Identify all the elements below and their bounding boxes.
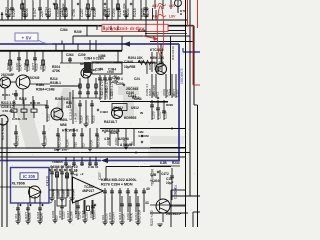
- svg-text:R212: R212: [132, 96, 140, 100]
- svg-text:R214: R214: [51, 188, 55, 196]
- svg-text:4MP217: 4MP217: [82, 189, 94, 193]
- svg-text:C2B: C2B: [150, 173, 157, 177]
- svg-text:C217: C217: [66, 210, 70, 218]
- svg-text:R256: R256: [15, 135, 19, 143]
- svg-text:C4B3: C4B3: [100, 110, 108, 114]
- svg-text:C209: C209: [151, 111, 155, 119]
- svg-text:013: 013: [66, 105, 72, 109]
- svg-text:4.7K0M: 4.7K0M: [138, 134, 149, 138]
- svg-text:+: +: [50, 201, 52, 205]
- svg-text:R233: R233: [66, 188, 70, 196]
- svg-text:C206: C206: [85, 115, 89, 123]
- svg-text:C4B 04: C4B 04: [88, 165, 99, 169]
- svg-text:+ 5V: + 5V: [22, 36, 33, 42]
- svg-text:C217: C217: [46, 113, 50, 121]
- svg-text:H2B4 R22B: H2B4 R22B: [102, 129, 120, 133]
- svg-text:4C: 4C: [145, 201, 150, 205]
- svg-text:0.047: 0.047: [33, 8, 37, 17]
- svg-text:KTC2320: KTC2320: [150, 48, 164, 52]
- svg-text:R34B-1: R34B-1: [50, 81, 61, 85]
- svg-text:0.047: 0.047: [103, 7, 107, 15]
- svg-text:22K: 22K: [40, 10, 44, 17]
- svg-text:C2640: C2640: [124, 60, 134, 64]
- svg-text:R276 C284 + MDN: R276 C284 + MDN: [101, 183, 133, 187]
- svg-text:R47K R233: R47K R233: [1, 123, 5, 140]
- svg-text:472: 472: [14, 214, 18, 219]
- svg-text:R4218-T: R4218-T: [104, 120, 118, 124]
- svg-text:R277: R277: [40, 212, 44, 220]
- svg-text:470K: 470K: [89, 139, 93, 147]
- svg-text:R218: R218: [133, 8, 137, 17]
- svg-text:+8: +8: [74, 173, 78, 177]
- svg-text:472: 472: [39, 65, 43, 70]
- svg-text:R60L: R60L: [60, 118, 68, 122]
- svg-text:C240: C240: [126, 212, 130, 220]
- svg-text:KD9505: KD9505: [124, 116, 137, 120]
- svg-text:2SC945: 2SC945: [28, 76, 40, 80]
- svg-text:C206: C206: [89, 210, 93, 218]
- svg-text:0.047: 0.047: [21, 7, 25, 15]
- svg-text:R216: R216: [91, 115, 95, 123]
- svg-text:C4316: C4316: [46, 176, 50, 186]
- svg-text:IC 205: IC 205: [23, 174, 36, 179]
- svg-text:156OM975: 156OM975: [180, 68, 184, 84]
- svg-text:10μF6B: 10μF6B: [124, 65, 136, 69]
- svg-text:C287: C287: [80, 8, 84, 17]
- svg-text:R223: R223: [6, 62, 10, 70]
- svg-text:C240: C240: [114, 137, 118, 145]
- svg-text:R214: R214: [79, 115, 83, 123]
- svg-text:MD-004: MD-004: [96, 136, 100, 147]
- svg-text:R2O4: R2O4: [2, 93, 10, 97]
- svg-text:R47K: R47K: [58, 210, 62, 218]
- svg-text:C206: C206: [23, 62, 27, 70]
- svg-text:R294: R294: [36, 211, 40, 219]
- svg-text:C4T2: C4T2: [161, 172, 169, 176]
- svg-text:KB84 MD-022 A200L: KB84 MD-022 A200L: [101, 178, 138, 182]
- svg-text:NB8: NB8: [60, 123, 67, 127]
- svg-text:C13 0.4: C13 0.4: [174, 188, 178, 199]
- svg-text:U912: U912: [131, 106, 139, 110]
- svg-text:0.047: 0.047: [18, 212, 22, 220]
- svg-text:C217: C217: [74, 210, 78, 218]
- svg-text:C206: C206: [25, 8, 29, 17]
- svg-text:10: 10: [130, 141, 134, 145]
- svg-text:C264: C264: [60, 28, 68, 32]
- svg-text:016: 016: [101, 215, 105, 220]
- svg-text:C220: C220: [163, 111, 167, 119]
- svg-text:R34 R219: R34 R219: [171, 46, 175, 60]
- svg-text:0.047: 0.047: [106, 137, 110, 145]
- svg-text:L-4 10: L-4 10: [74, 113, 78, 122]
- svg-text:R277: R277: [56, 188, 60, 196]
- svg-text:C287: C287: [61, 188, 65, 196]
- svg-text:1706: 1706: [107, 70, 114, 74]
- svg-text:R223 +470: R223 +470: [150, 210, 154, 226]
- svg-text:10μF: 10μF: [166, 181, 173, 185]
- svg-text:R296: R296: [138, 29, 146, 33]
- svg-text:R47K: R47K: [108, 212, 112, 220]
- svg-text:C284: C284: [43, 135, 47, 143]
- svg-text:10: 10: [74, 168, 78, 172]
- svg-text:470K: 470K: [52, 69, 61, 73]
- svg-text:R294: R294: [4, 7, 8, 15]
- svg-text:C209: C209: [71, 188, 75, 196]
- svg-text:470K: 470K: [72, 8, 76, 17]
- svg-text:10: 10: [81, 143, 85, 147]
- svg-text:+: +: [100, 67, 102, 71]
- svg-text:R294: R294: [44, 7, 48, 15]
- svg-text:+2: +2: [80, 172, 84, 176]
- svg-text:C24: C24: [134, 77, 140, 81]
- svg-text:HTCWIB-0: HTCWIB-0: [62, 129, 78, 133]
- svg-text:R219 470: R219 470: [105, 79, 109, 93]
- svg-text:B1912: B1912: [114, 106, 124, 110]
- svg-text:R294 22K: R294 22K: [150, 61, 165, 65]
- svg-text:MD-004: MD-004: [57, 136, 61, 147]
- svg-text:C210: C210: [157, 111, 161, 119]
- svg-text:IN: IN: [140, 111, 143, 115]
- svg-text:R2B4+C24B: R2B4+C24B: [36, 88, 55, 92]
- svg-text:C210: C210: [134, 212, 138, 220]
- svg-text:R34 1K: R34 1K: [30, 101, 41, 105]
- svg-text:R234: R234: [172, 161, 180, 165]
- svg-text:R2K: R2K: [138, 60, 145, 64]
- svg-text:R239: R239: [74, 30, 82, 34]
- svg-text:R47K: R47K: [146, 7, 150, 17]
- svg-text:C240 1706: C240 1706: [100, 79, 104, 95]
- svg-text:R294: R294: [65, 139, 69, 147]
- svg-text:C209 4.7: C209 4.7: [145, 83, 149, 96]
- svg-text:XL7806: XL7806: [12, 182, 25, 186]
- svg-text:R277: R277: [31, 62, 35, 70]
- svg-text:R218: R218: [81, 210, 85, 218]
- svg-text:C206: C206: [51, 210, 55, 218]
- svg-text:R204: R204: [126, 8, 130, 17]
- svg-text:2SC945-P: 2SC945-P: [166, 212, 182, 216]
- svg-text:R214: R214: [118, 212, 122, 220]
- svg-text:TRMKB: TRMKB: [52, 160, 63, 164]
- svg-text:K394 22K: K394 22K: [150, 56, 165, 60]
- svg-text:L8V: L8V: [169, 15, 176, 19]
- svg-text:C220: C220: [122, 137, 126, 145]
- svg-text:470K: 470K: [162, 89, 166, 96]
- svg-text:6.2B: 6.2B: [160, 161, 167, 165]
- svg-text:016: 016: [73, 141, 77, 147]
- svg-text:40: 40: [146, 187, 150, 191]
- svg-text:R218: R218: [107, 8, 111, 17]
- svg-text:C220: C220: [15, 62, 19, 70]
- svg-text:4.7K 220: 4.7K 220: [2, 109, 15, 113]
- svg-text:2SC945F: 2SC945F: [1, 73, 14, 77]
- svg-text:2SC945: 2SC945: [152, 85, 156, 96]
- svg-text:MD-004: MD-004: [61, 3, 65, 15]
- svg-text:R277: R277: [24, 211, 28, 219]
- svg-text:R296: R296: [166, 103, 173, 107]
- svg-text:MD-004: MD-004: [122, 3, 126, 15]
- svg-text:470K: 470K: [28, 212, 32, 220]
- svg-text:C204: C204: [112, 8, 116, 17]
- svg-text:R2 4: R2 4: [116, 77, 123, 81]
- svg-text:1486: 1486: [98, 54, 106, 58]
- svg-text:TOP-MB2W: TOP-MB2W: [151, 169, 155, 186]
- svg-text:C264: C264: [66, 53, 74, 57]
- svg-text:R218: R218: [19, 97, 27, 101]
